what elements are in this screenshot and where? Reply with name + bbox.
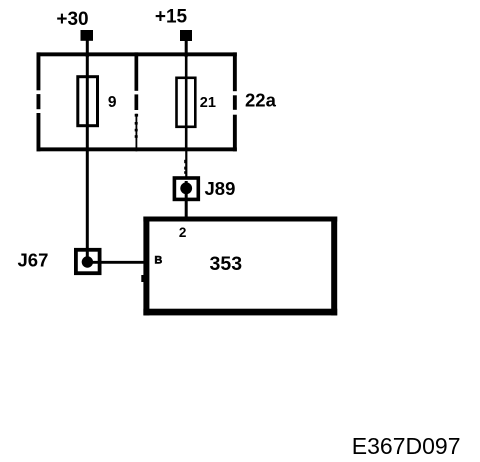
terminal +30 [81,30,94,41]
fuse 21 [177,78,196,127]
svg-text:B: B [154,255,162,267]
pin label 2 [179,225,187,240]
svg-text:2: 2 [179,225,187,240]
wire connector J89 to control unit pin 2 [185,181,188,221]
wire through fuse 9 [86,54,89,150]
pin label B [154,255,162,267]
connector J89 [174,178,198,199]
fuse box 22a outline [37,52,237,151]
label 9 [108,94,117,111]
svg-text:E367D097: E367D097 [352,433,461,459]
wire +30 to fuse box [86,40,89,57]
diagram number E367D097 [352,433,461,459]
svg-text:J89: J89 [205,178,236,199]
connector J67 [76,250,100,273]
svg-text:9: 9 [108,94,117,111]
wire connector J67 to control unit pin B [87,261,146,264]
svg-text:21: 21 [200,95,216,111]
terminal +15 [180,30,192,41]
label J67 [18,250,49,271]
label 353 [210,253,243,275]
svg-text:22a: 22a [245,90,277,111]
wire fuse 21 to connector J89 [184,150,186,178]
wire +15 to fuse box [185,40,188,57]
wire through fuse 21 [185,54,188,150]
terminal +15 label [155,7,188,28]
svg-text:353: 353 [210,253,243,275]
svg-text:+30: +30 [56,9,88,30]
terminal +30 label [56,9,88,30]
control unit 353 [141,217,337,316]
label 22a [245,90,277,111]
label 21 [200,95,216,111]
wire fuse 9 to connector J67 [86,150,89,262]
svg-text:+15: +15 [155,7,188,28]
fuse 9 [78,77,98,126]
label J89 [205,178,236,199]
svg-text:J67: J67 [18,250,49,271]
